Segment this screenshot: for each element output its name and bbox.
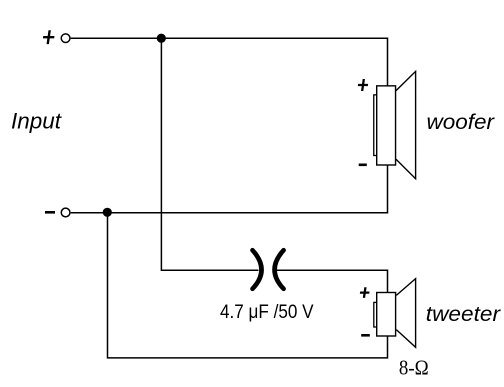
svg-text:4.7 μF /50 V: 4.7 μF /50 V — [220, 302, 314, 323]
capacitor C1 right plate — [275, 250, 284, 289]
svg-text:Input: Input — [11, 109, 62, 134]
tweeter driver box — [377, 293, 396, 337]
woofer cone — [396, 71, 416, 178]
input + label — [42, 30, 55, 44]
wire: capacitor right to tweeter top — [277, 270, 388, 292]
svg-text:tweeter: tweeter — [426, 303, 501, 326]
tweeter magnet plate — [374, 302, 377, 327]
capacitor C1 left plate — [253, 250, 262, 289]
node: junction dot on - rail — [103, 208, 112, 217]
tweeter + label — [359, 287, 370, 298]
input + terminal circle — [61, 34, 70, 43]
node: junction dot on + rail — [157, 34, 166, 43]
woofer + label — [357, 79, 369, 91]
wire: - rail and woofer bottom — [71, 165, 388, 213]
woofer driver box — [377, 86, 396, 165]
tweeter - label — [361, 334, 370, 337]
input - terminal circle — [61, 208, 70, 217]
woofer - label — [359, 164, 367, 167]
input - label — [45, 211, 55, 214]
wire: - junction down, bottom rail, up to tweeter bottom — [108, 213, 388, 358]
svg-text:8-Ω: 8-Ω — [399, 355, 429, 379]
wire: + rail to woofer top — [71, 38, 388, 85]
tweeter cone — [396, 279, 415, 348]
svg-text:woofer: woofer — [427, 111, 496, 134]
wire: from + junction down and right to capacitor — [161, 38, 258, 270]
woofer magnet plate — [374, 95, 377, 156]
